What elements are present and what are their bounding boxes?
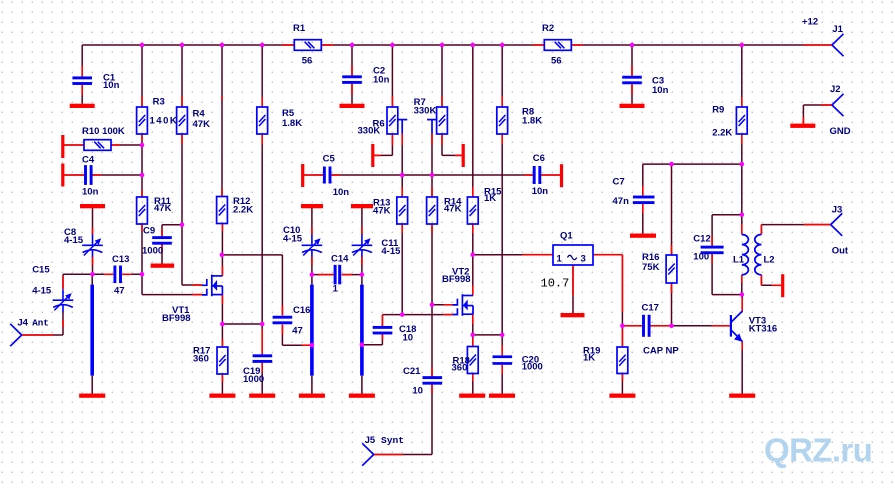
- svg-text:4-15: 4-15: [32, 285, 52, 296]
- svg-text:10n: 10n: [652, 85, 669, 96]
- svg-text:4-15: 4-15: [64, 235, 84, 246]
- svg-text:1.8K: 1.8K: [522, 115, 542, 126]
- svg-text:47: 47: [114, 285, 125, 296]
- svg-text:C15: C15: [32, 265, 50, 276]
- svg-text:Q1: Q1: [560, 230, 573, 241]
- svg-text:J5: J5: [365, 435, 376, 446]
- svg-text:1000: 1000: [142, 246, 163, 257]
- svg-text:100: 100: [693, 252, 709, 263]
- svg-text:C7: C7: [613, 177, 625, 188]
- svg-text:47: 47: [292, 325, 303, 336]
- svg-text:1: 1: [557, 254, 563, 265]
- svg-text:10n: 10n: [532, 186, 549, 197]
- svg-text:1.8K: 1.8K: [282, 118, 302, 129]
- svg-text:GND: GND: [830, 126, 851, 137]
- svg-text:3: 3: [581, 254, 586, 265]
- svg-text:47K: 47K: [193, 119, 211, 130]
- svg-text:10: 10: [403, 332, 414, 343]
- svg-text:C4: C4: [82, 155, 95, 166]
- svg-text:J3: J3: [832, 205, 843, 216]
- svg-text:C5: C5: [323, 154, 336, 165]
- svg-text:J2: J2: [830, 84, 841, 95]
- svg-text:360: 360: [452, 363, 468, 374]
- svg-text:4-15: 4-15: [283, 234, 303, 245]
- svg-text:47n: 47n: [613, 196, 630, 207]
- svg-text:Out: Out: [832, 246, 849, 257]
- svg-text:1K: 1K: [484, 193, 496, 204]
- svg-text:10.7: 10.7: [541, 276, 570, 290]
- svg-text:R9: R9: [712, 105, 724, 116]
- svg-text:C14: C14: [331, 254, 349, 265]
- svg-text:10n: 10n: [373, 75, 390, 86]
- svg-text:+12: +12: [802, 16, 818, 27]
- svg-text:330K: 330K: [358, 126, 381, 137]
- svg-text:10n: 10n: [103, 80, 120, 91]
- svg-text:56: 56: [302, 55, 313, 66]
- svg-text:J1: J1: [832, 24, 843, 35]
- svg-text:75K: 75K: [642, 262, 660, 273]
- svg-text:C9: C9: [143, 225, 155, 236]
- svg-text:1000: 1000: [522, 362, 543, 373]
- svg-text:L2: L2: [764, 255, 775, 266]
- svg-text:C16: C16: [293, 305, 310, 316]
- svg-text:C17: C17: [642, 303, 659, 314]
- svg-text:J4: J4: [17, 317, 28, 328]
- svg-text:QRZ.ru: QRZ.ru: [764, 432, 872, 469]
- svg-text:R3: R3: [153, 97, 165, 108]
- svg-text:2.2K: 2.2K: [233, 204, 253, 215]
- svg-text:4-15: 4-15: [381, 246, 401, 257]
- svg-text:360: 360: [193, 354, 209, 365]
- svg-text:Ant: Ant: [32, 317, 49, 328]
- svg-text:10n: 10n: [82, 187, 99, 198]
- svg-text:L1: L1: [733, 255, 745, 266]
- svg-text:R2: R2: [542, 23, 554, 34]
- svg-text:1: 1: [333, 284, 339, 295]
- svg-text:BF998: BF998: [162, 313, 191, 324]
- svg-text:CAP NP: CAP NP: [643, 345, 679, 356]
- svg-text:1000: 1000: [243, 374, 264, 385]
- svg-text:KT316: KT316: [749, 323, 778, 334]
- svg-text:56: 56: [551, 55, 562, 66]
- svg-text:C6: C6: [533, 153, 545, 164]
- svg-text:10: 10: [412, 385, 423, 396]
- svg-text:BF998: BF998: [442, 274, 471, 285]
- svg-text:47K: 47K: [373, 206, 391, 217]
- svg-text:47K: 47K: [154, 203, 172, 214]
- svg-text:2.2K: 2.2K: [712, 128, 732, 139]
- svg-text:1K: 1K: [583, 353, 595, 364]
- svg-text:C21: C21: [403, 366, 421, 377]
- svg-text:Synt: Synt: [381, 435, 404, 446]
- svg-text:140K: 140K: [150, 116, 179, 127]
- svg-text:R10 100K: R10 100K: [82, 126, 125, 137]
- svg-text:R4: R4: [193, 109, 206, 120]
- svg-text:47K: 47K: [444, 204, 462, 215]
- svg-text:10n: 10n: [333, 187, 350, 198]
- svg-text:R1: R1: [293, 23, 306, 34]
- svg-text:C12: C12: [693, 234, 710, 245]
- svg-text:330K: 330K: [414, 105, 437, 116]
- svg-text:C13: C13: [112, 254, 129, 265]
